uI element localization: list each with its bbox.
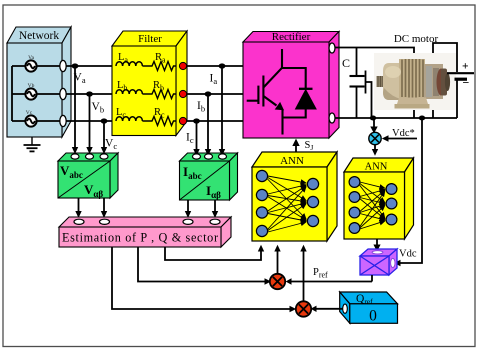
wire phase B network to filter (66, 93, 116, 95)
wire Vbeta to estimation (101, 198, 107, 218)
wire internal bus (12, 66, 60, 121)
terminal network-a (60, 60, 66, 71)
svg-text:Vc: Vc (26, 110, 33, 116)
terminal Iabc-a (193, 154, 201, 159)
wire Vdc sense drop to multiplier (370, 118, 377, 134)
wire phase B filter to rectifier (187, 93, 244, 95)
wire Vdc* reference arrow (382, 135, 417, 141)
terminal network-b (60, 88, 66, 99)
svg-text:Estimation of P , Q & sector: Estimation of P , Q & sector (62, 231, 218, 245)
wire Vb measurement drop (86, 94, 92, 154)
ANN1 output neuron 1 (307, 178, 318, 189)
svg-text:ANN: ANN (365, 162, 388, 173)
ANN1 input neuron 2 (256, 189, 267, 200)
ANN2 output neuron 2 (386, 198, 397, 209)
wire Va measurement drop (72, 66, 78, 154)
junction Vb tap (86, 91, 93, 96)
terminal Vdc-right (391, 258, 395, 267)
terminal filter-c (red) (179, 117, 186, 124)
svg-text:0: 0 (369, 308, 377, 325)
wire Vdc feedback to Vdc box (394, 118, 422, 266)
junction dc measurement tap (370, 116, 376, 121)
svg-text:Rectifier: Rectifier (272, 31, 311, 43)
wire Pref to multiplier1 (286, 278, 372, 284)
AC source Vb (25, 83, 36, 100)
network block (3-phase AC source) (7, 27, 71, 137)
diode D1 (282, 68, 317, 118)
terminal rectifier-plus (329, 43, 335, 53)
AC source Vc (25, 110, 36, 127)
svg-text:Vb: Vb (28, 83, 35, 89)
DC motor (photo style drawing) (374, 53, 456, 110)
svg-text:Filter: Filter (138, 33, 162, 45)
wire Ialpha to estimation (185, 200, 191, 218)
wire Qref to multiplier2 (311, 306, 343, 312)
terminal Vdc-top (372, 251, 383, 254)
wire Valpha to estimation (75, 198, 81, 218)
wire Ib measurement drop (205, 94, 211, 156)
terminal Qref-left (343, 304, 348, 313)
inductor Lb (116, 80, 142, 94)
wire phase C filter to rectifier (187, 120, 244, 122)
ANN1 input neuron 1 (256, 170, 267, 181)
Qref reference block (340, 292, 398, 323)
ANN1 output neuron 3 (307, 215, 318, 226)
battery E (447, 61, 474, 119)
wire phase A filter to rectifier (187, 65, 244, 67)
resistor Rc (142, 107, 176, 126)
ANN2 input neuron 2 (349, 192, 360, 203)
wire Q to multiplier2 (112, 247, 296, 312)
wire SJ gate drive (292, 139, 299, 152)
svg-text:ANN: ANN (280, 155, 304, 167)
transistor IGBT (247, 49, 283, 135)
multiplier Vdc error (blue) (369, 132, 381, 144)
wire Vdc box to Pref line (371, 275, 373, 282)
svg-text:C: C (342, 56, 350, 70)
wire Ia measurement drop (219, 66, 225, 156)
ground (24, 137, 41, 151)
wire phase A network to filter (66, 65, 116, 67)
svg-text:−: − (463, 76, 470, 90)
transform block Vabc to Valphabeta (58, 153, 118, 198)
ANN2 input neuron 1 (349, 177, 360, 188)
terminal est-4 (210, 219, 220, 224)
svg-text:Vdc*: Vdc* (392, 128, 415, 139)
wire Vdc error to ANN2 (372, 145, 378, 156)
junction Ib tap (205, 91, 212, 96)
terminal est-3 (183, 219, 193, 224)
wire P to multiplier1 (138, 247, 271, 285)
ANN1 input neuron 3 (256, 207, 267, 218)
ANN2 output neuron 3 (386, 214, 397, 225)
ANN2 output neuron 1 (386, 184, 397, 195)
battery loop wire (433, 43, 457, 118)
wire Ibeta to estimation (212, 200, 218, 218)
terminal est-1 (74, 219, 84, 224)
wire sector to ANN1 (165, 245, 264, 260)
junction dc feedback tap (419, 116, 425, 121)
transform block Iabc to Ialphabeta (180, 153, 238, 200)
wire Vc measurement drop (101, 121, 107, 154)
terminal Iabc-c (219, 154, 227, 159)
ANN1 synapse links (268, 176, 307, 232)
inductor La (116, 52, 142, 66)
terminal Iabc-b (205, 154, 213, 159)
capacitor C (350, 48, 372, 118)
wire dc minus rail (335, 117, 457, 119)
svg-text:+: + (462, 61, 469, 73)
svg-text:Network: Network (19, 30, 59, 42)
terminal network-c (60, 115, 66, 126)
terminal Vabc-b (86, 154, 94, 159)
junction Vc tap (101, 118, 108, 123)
junction Ia tap (219, 63, 226, 68)
terminal Vabc-c (100, 154, 108, 159)
wire Ic measurement drop (193, 121, 199, 156)
resistor Rb (142, 80, 176, 99)
ANN block 1 (current controller) (252, 152, 337, 241)
wire ANN2 to Vdc box (373, 239, 380, 252)
wire phase C network to filter (66, 120, 116, 122)
filter block (112, 31, 187, 136)
multiplier Q (red) (296, 301, 311, 316)
svg-text:Va: Va (28, 55, 34, 61)
ANN2 input neuron 4 (349, 223, 360, 234)
junction Va tap (72, 63, 79, 68)
Vdc sample-hold box (360, 249, 397, 275)
terminal est-2 (100, 219, 110, 224)
wire multiplier P to ANN1 (274, 245, 280, 274)
ANN1 input neuron 4 (256, 225, 267, 236)
AC source Va (25, 55, 36, 72)
terminal Vabc-a (71, 154, 79, 159)
terminal filter-a (red) (179, 62, 186, 69)
wire dc plus rail (335, 48, 414, 119)
svg-text:Vdc: Vdc (399, 249, 417, 260)
svg-text:DC motor: DC motor (394, 33, 439, 45)
terminal rectifier-minus (329, 113, 335, 123)
resistor Ra (142, 52, 176, 71)
rectifier block (243, 32, 339, 139)
wire multiplier Q to ANN1 (300, 245, 306, 302)
junction Ic tap (193, 118, 200, 123)
estimation block P Q sector (59, 217, 231, 247)
multiplier P (red) (270, 274, 285, 289)
terminal filter-b (red) (179, 90, 186, 97)
ANN2 synapse links (360, 182, 385, 229)
ANN2 input neuron 3 (349, 207, 360, 218)
ANN block 2 (voltage controller) (344, 158, 414, 239)
transistor IGBT emitter arrowhead (275, 102, 284, 110)
ANN1 output neuron 2 (307, 196, 318, 207)
inductor Lc (116, 107, 142, 121)
